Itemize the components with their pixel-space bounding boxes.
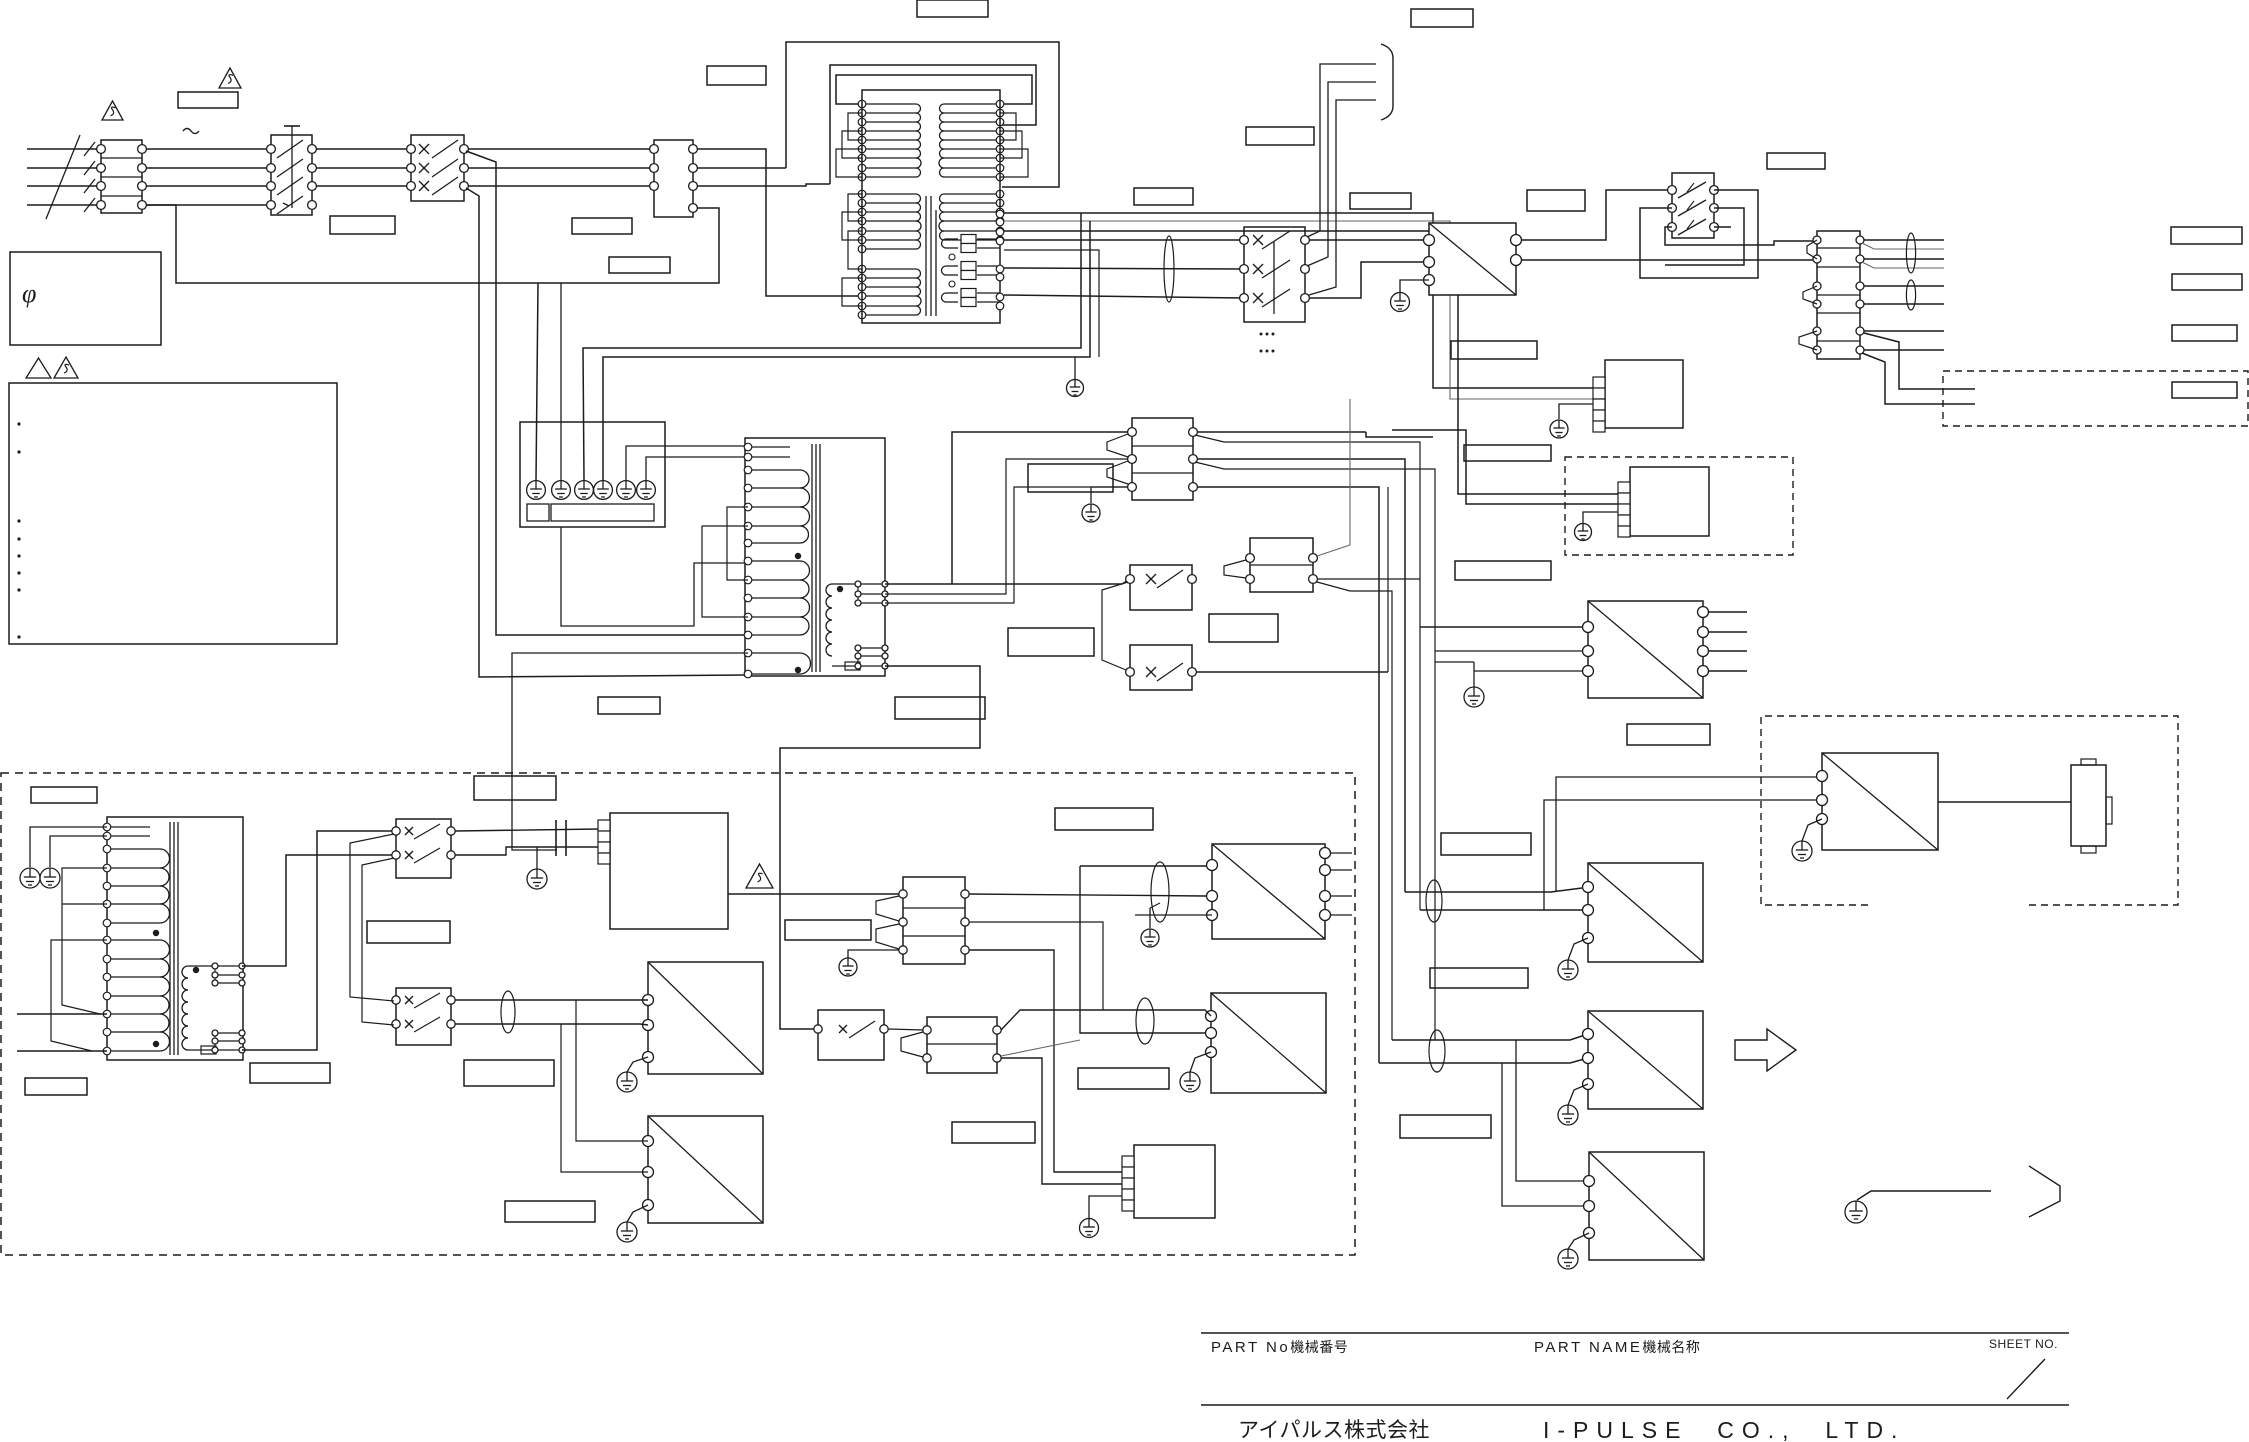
block arrow (output) [1735, 1029, 1796, 1071]
connector tabs DV1 [1593, 377, 1605, 432]
transformer T1 core [925, 196, 927, 316]
label box (right col a) [1441, 833, 1531, 855]
shield ellipse (TB3 pair2) [1906, 280, 1915, 310]
switch SW5 (2-pole) [396, 819, 451, 878]
label box (top of lower section) [1055, 808, 1153, 830]
ground [1558, 1105, 1578, 1125]
label box (bottom-left col a) [464, 1060, 554, 1086]
power supply [1583, 863, 1704, 962]
transformer T2 polarity dots [795, 553, 801, 559]
ground [527, 869, 547, 889]
transformer T3 primary winding [103, 823, 169, 1055]
label box (left of KM2) [1134, 188, 1193, 205]
label box (under T2 right) [895, 697, 985, 719]
wire branch up to PS10 row2 [1544, 800, 1822, 910]
wire TB1 to QS1 [146, 148, 267, 150]
power supply [1424, 223, 1522, 295]
switch SW7 [818, 1010, 884, 1060]
label box (below PS5) [505, 1201, 595, 1222]
transformer T1 outer loop 3 [836, 75, 1032, 104]
wire PS3 ground pin [1135, 914, 1212, 916]
wire riser to DV2 second pin [1392, 430, 1630, 504]
wire screen stub [1150, 903, 1160, 908]
terminal block TB8 [903, 877, 965, 964]
wire TB2 row1 to T1 lower-left pin [697, 149, 862, 296]
label box (right col c) [1400, 1115, 1491, 1138]
terminal block TB5 [1250, 538, 1313, 592]
wire T3 top tap to SW5 [242, 855, 392, 966]
power supply [1584, 1152, 1705, 1260]
wire T2 pin to NF drop [512, 653, 748, 850]
sheet number slash [2007, 1359, 2045, 1399]
title block rule top [1201, 1332, 2069, 1334]
wire bundle to PS8 row2 [1379, 1058, 1588, 1063]
wire ground-bar riser from neutral bus [536, 283, 538, 480]
terminal block TB4 [1132, 418, 1193, 500]
shield ellipse (PS4 input) [1136, 998, 1154, 1044]
wire TB2 row2 to T1 loop1 [697, 167, 786, 169]
wire TB8 chevrons [876, 896, 899, 921]
wire TB8 row2 drop [969, 922, 1103, 1010]
wire KA1 loop inner to TB3 row1 [1665, 227, 1817, 245]
wire T1 screen loop to ground bus 2 [603, 221, 1090, 480]
wire TB7 row2 to PS4 row2 [1001, 1040, 1080, 1056]
svg-text:PART No機械番号: PART No機械番号 [1211, 1339, 1348, 1356]
ground [1558, 1249, 1578, 1269]
warning triangle [746, 864, 773, 888]
power supply [1207, 844, 1331, 939]
ground electrode 2 [552, 481, 571, 500]
label box (under T2 left) [598, 697, 660, 714]
label box (cabinet top-left) [31, 787, 97, 803]
transformer T1 case [862, 90, 1000, 323]
wire T3 jumper 1 [62, 868, 107, 1014]
label box (between SW5,SW6) [367, 921, 450, 943]
label box (right col b) [1430, 968, 1528, 988]
resistor (T3 secondary) [201, 1046, 216, 1054]
ground electrode 5 [617, 481, 636, 500]
wire PS3 outputs [1330, 852, 1352, 854]
wire KA1 loop outer [1640, 190, 1758, 278]
wire TB7 to DV3 tab2 [1001, 1058, 1123, 1184]
wire T2 secondary top to TB4 and SW1 [885, 583, 952, 585]
ground [1464, 687, 1484, 707]
ground [617, 1222, 637, 1242]
wire T1 out to device box DV1 [1004, 213, 1593, 388]
shield ellipse (PS3 input) [1151, 862, 1169, 922]
dashed box (servo unit) [1565, 457, 1793, 555]
transformer T1 right jumper links [1000, 113, 1016, 140]
transformer T1 outer loop 2 [830, 65, 1036, 184]
device box DV1 [1605, 360, 1683, 428]
warning triangle [26, 358, 51, 378]
note bullet dots [17, 422, 20, 425]
shield ellipse (TB3 pair1) [1906, 233, 1915, 273]
shield ellipse (PS8 input) [1429, 1030, 1445, 1072]
label box (top edge 1) [917, 0, 988, 17]
ground terminal bar enclosure [520, 422, 665, 527]
label box (above T1) [707, 66, 766, 85]
wire branch to PS6 row1 [576, 1000, 648, 1141]
connector bracket (to external) [1381, 44, 1393, 120]
wire SW1-SW2 link [1102, 582, 1128, 670]
wire TB8 row3 to DV3 [969, 950, 1123, 1172]
wire PS10 to connector J1 [1938, 801, 2071, 803]
label box (under DV2) [1455, 561, 1551, 580]
connector tabs DV2 [1618, 482, 1630, 537]
wire bundle to PS8 row1 [1392, 1034, 1588, 1040]
transformer T1 auxiliary winding and fuses [942, 210, 1004, 310]
ground electrode 4 [594, 481, 613, 500]
switch SW2 [1130, 645, 1192, 690]
svg-text:φ: φ [22, 279, 36, 308]
wire PS2 outputs [1709, 611, 1747, 613]
warning triangle [54, 357, 78, 378]
wire TB1 neutral to TB2 pin4 [146, 205, 719, 283]
wire PS1 to relay KA1 [1521, 190, 1668, 240]
wire TB4 outputs to riser bundle [1197, 431, 1366, 433]
label box (top edge 2) [1411, 9, 1473, 27]
transformer T2 primary winding [744, 443, 810, 678]
wire T3 input stubs [17, 1013, 107, 1015]
wire KM2 risers to connector bracket [1307, 64, 1376, 237]
transformer T3 polarity dots [153, 930, 159, 936]
wire T2 ground taps to bar [626, 446, 748, 480]
label box (cabinet bottom-left) [25, 1078, 87, 1095]
connector tabs DV3 [1122, 1156, 1134, 1211]
chevron (continuation mark) [2029, 1166, 2060, 1217]
transformer T1 secondary winding (right column) [939, 100, 1004, 244]
contactor KM1 [411, 135, 464, 201]
warning triangle [102, 101, 123, 120]
label box (under T3) [250, 1063, 330, 1083]
wire ground bar riser 2 (from neutral) [560, 283, 562, 480]
device box DV2 [1630, 467, 1709, 536]
wire bundle to PS7 row1 [1405, 887, 1588, 892]
label box (left of notes) [609, 257, 670, 273]
wire TB5 out to riser [1317, 582, 1392, 1040]
ground electrode 1 [527, 481, 546, 500]
wire KM2 to PS1 [1309, 239, 1429, 241]
title block rule bottom [1201, 1404, 2069, 1406]
wire TB7 to PS4 row1 [1001, 1010, 1211, 1030]
ground [1391, 293, 1410, 312]
ground [1792, 841, 1812, 861]
label box (right of QS1) [572, 218, 632, 234]
wire T1 out to DV1 (thin) [1004, 221, 1593, 399]
wire riser to PS3 row1 [1080, 865, 1212, 866]
contactor KM2 [1244, 227, 1305, 322]
transformer T2 secondary taps [858, 593, 885, 595]
wire TB5 left bracket [1224, 560, 1246, 578]
wire TB2 row3 to T1 loop2 [697, 184, 830, 186]
power supply [643, 962, 764, 1074]
wire bundle to PS7 row2 [1420, 909, 1588, 911]
connector tabs NF1 [598, 820, 610, 864]
relay KA1 [1672, 173, 1714, 238]
label box (far right 4) [2172, 382, 2237, 398]
ground [1575, 524, 1592, 541]
label box (far right 3) [2172, 325, 2237, 341]
label box (far right 1) [2171, 227, 2242, 244]
ground [1082, 504, 1100, 522]
wire QS1 to KM1 [316, 148, 406, 150]
ground electrode 6 [637, 481, 656, 500]
terminal block TB2 [654, 140, 693, 217]
label box (under DV1) [1464, 445, 1551, 461]
label box (under TB5) [1209, 614, 1278, 642]
svg-text:SHEET NO.: SHEET NO. [1989, 1337, 2058, 1351]
noise filter box NF1 [610, 813, 728, 929]
wire TB5 gray riser up [1317, 399, 1350, 556]
svg-text:PART NAME機械名称: PART NAME機械名称 [1534, 1339, 1700, 1356]
label box (under SW7) [952, 1122, 1035, 1143]
svg-text:アイパルス株式会社: アイパルス株式会社 [1238, 1419, 1430, 1442]
label box (above KA1) [1767, 153, 1825, 169]
label box (under PS2) [1627, 724, 1710, 745]
shield ellipse (T1-KM2 cable) [1164, 236, 1174, 302]
resistor (T2 secondary) [845, 662, 860, 670]
label box (right of TB7) [1078, 1068, 1169, 1089]
dashed unit box (top right) [1943, 371, 2248, 426]
ground [1845, 1201, 1867, 1223]
power supply [1206, 993, 1327, 1093]
label box (top-left) [178, 92, 238, 108]
transformer T3 secondary winding [182, 966, 242, 1050]
label box (above filter) [474, 776, 556, 800]
transformer T2 secondary winding [826, 584, 885, 666]
transformer T3 case [107, 817, 243, 1060]
wire KM1 row3 riser to T2 pin b [466, 188, 746, 677]
terminal block TB7 [927, 1017, 997, 1073]
power supply [643, 1116, 764, 1223]
label box (above KM2) [1350, 193, 1411, 209]
transformer T2 core [811, 444, 813, 672]
wire T1 out to KM2 pole3 [1004, 295, 1244, 298]
wire T3 bottom tap to SW5 [242, 831, 392, 1050]
wire T2 secondary taps to TB4 [885, 459, 1128, 594]
wire KM1 row1 riser to T2 pin a [466, 151, 748, 635]
wire TB4 left chevrons [1107, 434, 1128, 457]
power supply [1817, 753, 1939, 850]
wire branch to PS6 row2 [561, 1024, 648, 1172]
label box (mid right upper) [1451, 341, 1537, 359]
ground [40, 868, 60, 888]
ground [617, 1072, 637, 1092]
terminal block TB3 [1817, 231, 1860, 359]
ground bar inner boxes [527, 504, 549, 521]
continuation dots [1260, 333, 1263, 336]
transformer T1 left jumper links [848, 113, 862, 140]
label box (left of SW1) [1008, 628, 1094, 656]
ground [839, 958, 857, 976]
transformer T1 outer loop 1 [786, 42, 1059, 187]
ground [1550, 420, 1568, 438]
ground electrode 3 [575, 481, 594, 500]
transformer T1 primary winding (left column) [858, 100, 921, 319]
wire KA1 loop middle [1665, 208, 1744, 265]
wire branch down to PS9 row1 [1516, 1040, 1589, 1181]
wire T1 screen loop to ground bus 1 [583, 213, 1081, 480]
wire T1 out to DV2 [1004, 231, 1630, 494]
wire branch down to PS9 row2 [1502, 1063, 1589, 1206]
warning triangle [219, 68, 241, 88]
ground [1141, 929, 1159, 947]
dashed box (external unit) [1761, 716, 2178, 905]
cabinet dashed boundary [1, 773, 1355, 1255]
wire TB3 left jumpers [1807, 240, 1817, 259]
incoming 3-phase supply wires [27, 148, 101, 150]
disconnect switch QS1 [271, 135, 312, 215]
shield ellipse (PS7 input) [1426, 880, 1442, 922]
wire TB3 to lower dashed unit [1864, 333, 1975, 389]
switch SW1 [1130, 565, 1192, 610]
wire SW6 to PS5 [455, 999, 648, 1001]
transformer T2 case [745, 438, 885, 676]
wire SW2 output [1196, 671, 1388, 673]
wire ground bar to T2 shield [561, 527, 748, 626]
power supply [1583, 1011, 1704, 1109]
wire T1 out to KM2 pole1 [1004, 239, 1244, 241]
wire SW7 to TB7 [888, 1029, 923, 1030]
capacitor feedthrough bars [555, 820, 557, 856]
ground [1080, 1219, 1099, 1238]
label box (under KM1) [330, 216, 395, 234]
power supply [1583, 601, 1709, 698]
label box (left of TB8) [785, 920, 871, 940]
wire TB8 to PS3 row2 [969, 894, 1212, 896]
ground [1558, 960, 1578, 980]
wire PS1 to TB3 row2 [1521, 259, 1813, 261]
wire T3 jumper 2 [51, 940, 107, 1051]
wire KM1 to TB2 [468, 148, 650, 150]
notes box [9, 383, 337, 644]
AC tilde symbol [183, 129, 199, 134]
label box (far right 2) [2172, 274, 2242, 290]
wire branch up to PS10 row1 [1556, 776, 1822, 892]
wire SW5 outputs to noise filter [455, 829, 599, 831]
wire NF1 output to TB8 [728, 893, 899, 895]
ground [1067, 380, 1084, 397]
wire T2 secondary bottom to SW7 riser [780, 666, 980, 1029]
svg-text:I-PULSE CO., LTD.: I-PULSE CO., LTD. [1543, 1417, 1905, 1442]
wire SW5-SW6 links [350, 834, 394, 1001]
shield ellipse (PS5 input) [501, 991, 515, 1033]
phi info box [10, 252, 161, 345]
connector J1 [2071, 765, 2106, 846]
label box (right of T2 top) [1028, 464, 1113, 492]
wire TB7 left bracket [901, 1032, 923, 1057]
switch SW6 (2-pole) [396, 988, 451, 1045]
wire T1 out row 250 stub [1004, 250, 1099, 357]
ground [1180, 1072, 1200, 1092]
transformer T3 core [169, 822, 171, 1055]
transformer T3 secondary taps [215, 974, 242, 976]
wire T2 jumper links left [727, 507, 748, 580]
phase-count slash marks [46, 135, 80, 219]
label box (above PS1) [1527, 190, 1585, 211]
ground [20, 868, 40, 888]
device box DV3 [1134, 1145, 1215, 1218]
wire PS2 inputs [1420, 626, 1582, 628]
wire T1 out to KM2 pole2 [1004, 268, 1244, 269]
wire TB3 outputs [1864, 239, 1944, 241]
label box (bracket) [1246, 127, 1314, 145]
terminal block TB1 [101, 140, 142, 213]
